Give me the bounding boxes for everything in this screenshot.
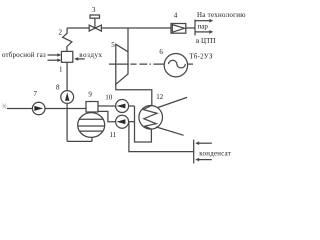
svg-text:7: 7: [34, 90, 38, 98]
svg-text:отбросной газ: отбросной газ: [2, 51, 46, 59]
svg-text:8: 8: [56, 84, 60, 92]
svg-text:воздух: воздух: [79, 51, 102, 59]
svg-text:конденсат: конденсат: [199, 150, 231, 157]
svg-text:10: 10: [105, 94, 113, 102]
svg-text:1: 1: [59, 66, 63, 74]
svg-text:в ЦТП: в ЦТП: [196, 37, 215, 45]
svg-text:3: 3: [92, 6, 96, 14]
svg-text:6: 6: [159, 48, 163, 56]
svg-text:9: 9: [88, 91, 92, 99]
svg-text:2: 2: [59, 28, 63, 36]
svg-text:5: 5: [111, 41, 115, 49]
svg-text:12: 12: [156, 93, 164, 101]
svg-text:11: 11: [110, 131, 117, 139]
svg-text:4: 4: [174, 12, 178, 20]
svg-text:На технологию: На технологию: [197, 11, 246, 19]
svg-text:пар: пар: [198, 22, 209, 30]
svg-text:Тб-2УЗ: Тб-2УЗ: [189, 53, 213, 61]
